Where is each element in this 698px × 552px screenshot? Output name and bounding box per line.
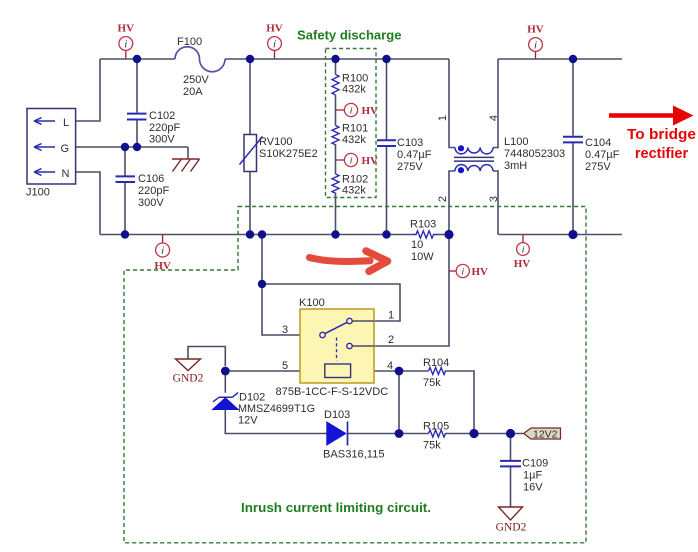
wire top bus left of fuse xyxy=(100,58,175,60)
svg-text:0.47µF: 0.47µF xyxy=(585,149,620,161)
wire node to relay pin3 xyxy=(262,284,320,335)
red arrow to bridge rectifier xyxy=(609,106,694,126)
svg-text:N: N xyxy=(62,168,70,180)
svg-text:3: 3 xyxy=(488,196,500,202)
wire bottom bus R103 to node xyxy=(437,234,450,236)
svg-text:R104: R104 xyxy=(423,357,449,369)
svg-text:75k: 75k xyxy=(423,377,441,389)
HV probe top-right xyxy=(527,24,544,59)
resistor R105 xyxy=(423,421,449,452)
wire R105 right xyxy=(445,433,523,435)
resistor R104 xyxy=(423,357,449,389)
wire relay pin4 to R104 xyxy=(351,370,429,372)
svg-text:250V: 250V xyxy=(183,74,209,86)
HV probe below bottom bus left xyxy=(154,235,171,272)
inductor L100 xyxy=(437,115,565,202)
HV probe top-mid xyxy=(266,23,283,59)
svg-text:4: 4 xyxy=(488,115,500,121)
wire C109 branch xyxy=(510,434,512,507)
svg-text:R103: R103 xyxy=(410,219,436,231)
wire top bus right section xyxy=(498,58,622,60)
wire D103 cathode to R105 xyxy=(347,433,428,435)
wire relay pin2 riser xyxy=(374,235,449,347)
earth ground xyxy=(172,159,200,172)
svg-text:300V: 300V xyxy=(138,197,164,209)
svg-text:1: 1 xyxy=(437,115,449,121)
svg-text:2: 2 xyxy=(388,334,394,346)
svg-text:GND2: GND2 xyxy=(496,522,527,534)
relay K100 xyxy=(276,297,395,398)
wire C106 branch xyxy=(124,147,126,235)
capacitor C102 xyxy=(127,110,180,146)
wire pin4 node down to D103 node xyxy=(398,371,400,434)
HV probe chain lower xyxy=(336,153,379,166)
svg-text:HV: HV xyxy=(118,23,135,35)
label Inrush current limiting circuit xyxy=(241,500,431,515)
svg-text:rectifier: rectifier xyxy=(635,146,689,162)
svg-text:220pF: 220pF xyxy=(138,185,169,197)
svg-text:10W: 10W xyxy=(411,251,434,263)
svg-text:12V2: 12V2 xyxy=(533,428,558,440)
ground GND2 bottom xyxy=(496,507,527,534)
wire GND2 loop to pin5 node xyxy=(188,347,225,367)
red hand-drawn arrow annotation xyxy=(310,251,388,271)
svg-text:275V: 275V xyxy=(397,161,423,173)
HV probe near relay xyxy=(449,264,488,277)
svg-text:275V: 275V xyxy=(585,161,611,173)
svg-text:GND2: GND2 xyxy=(173,373,204,385)
wire transformer pin1 riser xyxy=(449,59,455,148)
svg-text:3mH: 3mH xyxy=(504,160,527,172)
capacitor C109 xyxy=(500,458,548,494)
svg-text:RV100: RV100 xyxy=(259,136,292,148)
wire N-pin riser xyxy=(76,172,100,235)
svg-text:HV: HV xyxy=(527,24,544,36)
wire safety chain xyxy=(335,59,337,235)
svg-text:D103: D103 xyxy=(324,409,350,421)
svg-text:1µF: 1µF xyxy=(523,470,542,482)
svg-text:Safety discharge: Safety discharge xyxy=(297,28,402,43)
svg-text:7448052303: 7448052303 xyxy=(504,148,565,160)
svg-text:G: G xyxy=(61,143,70,155)
green dashed box: Inrush current limiting circuit xyxy=(124,207,586,543)
svg-text:S10K275E2: S10K275E2 xyxy=(259,148,318,160)
svg-text:K100: K100 xyxy=(299,297,325,309)
svg-text:HV: HV xyxy=(514,258,531,270)
svg-text:Inrush current limiting circui: Inrush current limiting circuit. xyxy=(241,500,431,515)
svg-text:C109: C109 xyxy=(522,458,548,470)
svg-text:4: 4 xyxy=(387,360,393,372)
svg-text:HV: HV xyxy=(266,23,283,35)
svg-text:HV: HV xyxy=(472,266,489,278)
wire bottom bus left xyxy=(100,234,412,236)
net label 12V2 xyxy=(524,428,561,440)
HV probe below bottom bus right xyxy=(514,235,531,270)
svg-text:C104: C104 xyxy=(585,137,611,149)
fuse F100 xyxy=(175,36,225,98)
svg-text:F100: F100 xyxy=(177,36,202,48)
HV probe top-left xyxy=(118,23,135,59)
svg-text:D102: D102 xyxy=(239,392,265,404)
capacitor C103 xyxy=(377,137,432,173)
connector J100 xyxy=(26,109,76,199)
wire bottom bus right section xyxy=(499,234,623,236)
green dashed box: Safety discharge xyxy=(326,49,377,198)
svg-text:432k: 432k xyxy=(342,134,366,146)
zener diode D102 xyxy=(213,392,315,427)
svg-text:R101: R101 xyxy=(342,123,368,135)
svg-text:16V: 16V xyxy=(523,482,543,494)
resistor R101 xyxy=(332,123,368,147)
svg-text:C106: C106 xyxy=(138,173,164,185)
svg-text:L: L xyxy=(63,117,69,129)
svg-text:432k: 432k xyxy=(342,84,366,96)
svg-text:R105: R105 xyxy=(423,421,449,433)
svg-text:875B-1CC-F-S-12VDC: 875B-1CC-F-S-12VDC xyxy=(276,386,389,398)
svg-text:J100: J100 xyxy=(26,187,50,199)
wire transformer pin3 riser xyxy=(493,171,498,235)
resistor R103 xyxy=(410,219,437,264)
svg-text:C103: C103 xyxy=(397,137,423,149)
svg-text:75k: 75k xyxy=(423,440,441,452)
ground GND2 left xyxy=(173,359,204,385)
svg-text:3: 3 xyxy=(282,324,288,336)
resistor R100 xyxy=(332,73,368,96)
svg-text:220pF: 220pF xyxy=(149,122,180,134)
svg-text:To bridge: To bridge xyxy=(627,127,696,143)
svg-text:BAS316,115: BAS316,115 xyxy=(323,449,385,461)
capacitor C106 xyxy=(116,173,170,209)
wire relay pin5 xyxy=(225,370,324,372)
svg-text:12V: 12V xyxy=(238,415,258,427)
svg-text:L100: L100 xyxy=(504,136,528,148)
label Safety discharge xyxy=(297,28,402,43)
label To bridge rectifier xyxy=(627,127,696,162)
HV probe chain upper xyxy=(336,103,379,116)
capacitor C104 xyxy=(563,137,620,173)
svg-text:MMSZ4699T1G: MMSZ4699T1G xyxy=(238,403,315,415)
wire node to relay pin1 xyxy=(262,235,400,322)
svg-text:2: 2 xyxy=(437,196,449,202)
svg-text:5: 5 xyxy=(282,360,288,372)
svg-text:300V: 300V xyxy=(149,134,175,146)
wire transformer pin4 riser xyxy=(493,59,498,148)
wire L-pin to top bus xyxy=(76,59,100,121)
svg-text:10: 10 xyxy=(411,239,423,251)
wire C102 branch xyxy=(136,59,138,147)
svg-text:432k: 432k xyxy=(342,185,366,197)
wire C104 branch xyxy=(572,59,574,235)
varistor RV100 xyxy=(240,135,318,172)
wire RV100 branch xyxy=(249,59,251,235)
resistor R102 xyxy=(332,174,368,197)
diode D103 xyxy=(323,409,385,461)
wire zener branch xyxy=(225,371,326,434)
wire G pin to earth xyxy=(76,147,188,158)
svg-text:1: 1 xyxy=(388,310,394,322)
svg-text:C102: C102 xyxy=(149,110,175,122)
wire R104 right corner down xyxy=(445,371,474,434)
wire top bus fuse to transformer pin1 xyxy=(225,58,449,60)
svg-text:20A: 20A xyxy=(183,86,203,98)
wire C103 branch xyxy=(386,59,388,235)
svg-text:0.47µF: 0.47µF xyxy=(397,149,432,161)
wire transformer pin2 riser xyxy=(449,171,455,235)
